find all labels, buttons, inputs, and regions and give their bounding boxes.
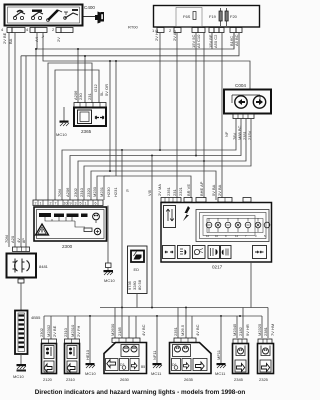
hazard switch connector row xyxy=(74,103,106,108)
svg-text:2310: 2310 xyxy=(79,187,84,197)
connector 3 below ignition switch xyxy=(52,27,73,33)
cluster icon box 6 xyxy=(253,246,267,259)
ground MC11 left xyxy=(151,316,162,376)
svg-text:H231: H231 xyxy=(113,187,118,197)
svg-text:●: ● xyxy=(194,252,196,256)
svg-text:M2345: M2345 xyxy=(232,323,237,336)
svg-text:HE10: HE10 xyxy=(85,349,90,360)
flasher unit 2300 connector row xyxy=(33,200,103,206)
svg-text:9: 9 xyxy=(70,202,72,206)
cluster lamp leads xyxy=(209,218,258,232)
ground MC11 right xyxy=(215,316,226,376)
key symbol xyxy=(84,12,105,24)
svg-text:A5 C10: A5 C10 xyxy=(196,34,201,48)
svg-text:S: S xyxy=(126,188,129,193)
BSI box icon unit xyxy=(127,246,147,294)
svg-text:M2310: M2310 xyxy=(70,324,75,337)
rear right lamp unit 2635 connector xyxy=(174,338,196,343)
svg-text:8P: 8P xyxy=(21,238,26,243)
svg-text:1: 1 xyxy=(85,202,87,206)
cluster inner frame 4 xyxy=(207,219,263,233)
svg-text:2: 2 xyxy=(50,202,52,206)
svg-text:MF11: MF11 xyxy=(216,349,221,360)
svg-text:BHE AP: BHE AP xyxy=(199,181,204,196)
svg-text:2351: 2351 xyxy=(166,186,171,196)
svg-text:2635: 2635 xyxy=(184,377,194,382)
svg-text:7: 7 xyxy=(55,202,57,206)
svg-text:2300: 2300 xyxy=(62,244,73,249)
svg-text:2320: 2320 xyxy=(86,187,91,197)
ignition switch contact 3 xyxy=(47,10,62,21)
fusebox connector 5 xyxy=(230,28,242,33)
2300 lamp circle xyxy=(93,213,100,223)
svg-text:/212: /212 xyxy=(93,83,98,92)
left wire bundle verticals xyxy=(9,33,26,248)
long mid buses xyxy=(62,119,251,201)
svg-text:2120: 2120 xyxy=(43,377,53,382)
svg-text:14: 14 xyxy=(235,234,239,238)
svg-text:RT00: RT00 xyxy=(128,25,138,30)
cluster icon box 4 xyxy=(208,246,220,259)
side repeater lamp unit connector xyxy=(13,247,30,252)
C004 connector row xyxy=(233,114,254,119)
svg-text:2V MA: 2V MA xyxy=(157,184,162,196)
svg-text:2302: 2302 xyxy=(73,187,78,197)
svg-text:MC10: MC10 xyxy=(85,371,96,376)
verticals from fusebox to cluster xyxy=(160,33,234,199)
wire bus D y70 xyxy=(55,70,99,200)
rear indicator 2325 connector xyxy=(258,339,272,344)
cluster inner frame 1 xyxy=(196,210,269,242)
svg-text:BR VE: BR VE xyxy=(186,184,191,196)
svg-text:2310: 2310 xyxy=(66,377,76,382)
svg-text:F6S: F6S xyxy=(183,14,191,19)
2300 resistor and sensor xyxy=(84,228,101,235)
svg-text:M2630: M2630 xyxy=(110,323,115,336)
2300 internal bar 3 xyxy=(67,214,79,218)
left indicator arrow xyxy=(235,96,247,108)
instrument cluster connector row xyxy=(161,198,251,203)
svg-text:231: 231 xyxy=(172,189,177,196)
rear left lamp unit 2630 xyxy=(104,343,147,374)
svg-text:MC10: MC10 xyxy=(104,278,115,283)
instrument cluster box xyxy=(161,203,272,263)
svg-text:2V HE: 2V HE xyxy=(154,29,159,41)
fusebox wire labels xyxy=(154,29,239,48)
cluster icon box 5 xyxy=(221,246,232,259)
svg-text:MC10: MC10 xyxy=(56,132,67,137)
svg-text:1: 1 xyxy=(40,202,42,206)
cluster lightning symbol xyxy=(183,206,190,221)
svg-text:2321: 2321 xyxy=(178,186,183,196)
flasher unit 2300 box xyxy=(34,207,107,241)
rear indicator 2345 connector xyxy=(233,339,247,344)
svg-text:H230: H230 xyxy=(106,187,111,197)
MC10 ground by hazard switch xyxy=(56,107,69,137)
svg-text:C400: C400 xyxy=(84,5,95,10)
svg-text:2V FH: 2V FH xyxy=(76,326,81,337)
hazard warning switch 2365 xyxy=(74,108,106,127)
svg-text:80 58: 80 58 xyxy=(137,279,142,290)
svg-text:M230: M230 xyxy=(92,186,97,197)
svg-text:4B55: 4B55 xyxy=(31,315,41,320)
svg-text:2302: 2302 xyxy=(39,327,44,337)
svg-text:MC11: MC11 xyxy=(215,371,226,376)
svg-text:MC10: MC10 xyxy=(13,374,24,379)
svg-text:2V BE: 2V BE xyxy=(2,32,7,44)
fusebox connector 4 xyxy=(209,28,224,33)
2300 internal bar 2 xyxy=(54,214,64,218)
fuse F19 xyxy=(209,8,222,26)
svg-text:7V HM: 7V HM xyxy=(270,324,275,336)
svg-text:B5: B5 xyxy=(141,365,145,369)
ignition switch contact 2 xyxy=(31,10,43,20)
wire from repeater to strip connector xyxy=(18,278,24,311)
fuse F6S xyxy=(183,12,196,20)
2300 warning triangle xyxy=(36,224,49,235)
svg-text:Direction indicators and hazar: Direction indicators and hazard warning … xyxy=(35,389,246,396)
cluster icon box 1 xyxy=(163,246,176,259)
right indicator arrow xyxy=(253,96,265,108)
svg-text:3: 3 xyxy=(75,202,77,206)
svg-text:M2302: M2302 xyxy=(46,324,51,337)
2300 feed wire labels xyxy=(57,181,222,197)
svg-text:2381: 2381 xyxy=(263,326,268,336)
lower buses xyxy=(44,307,268,318)
C004 wire labels xyxy=(224,125,252,140)
front left indicator 2120 connector xyxy=(42,339,57,344)
ignition switch C400 box xyxy=(5,5,83,26)
svg-text:A20: A20 xyxy=(10,235,15,243)
svg-text:9V HR: 9V HR xyxy=(245,324,250,336)
rear indicator 2325 xyxy=(258,344,274,374)
svg-text:A5 BC: A5 BC xyxy=(234,34,239,46)
wire bus A y49 xyxy=(37,33,234,50)
svg-text:2345: 2345 xyxy=(234,377,244,382)
svg-text:M2325: M2325 xyxy=(257,323,262,336)
cluster icon box 2 xyxy=(178,246,191,259)
wire label column left xyxy=(2,32,61,44)
connector strip 4B55 xyxy=(15,311,28,355)
connector 1 below ignition switch xyxy=(1,27,25,33)
wire bus B y56 xyxy=(21,33,239,56)
strip ground MC10 xyxy=(13,354,26,379)
svg-text:70M: 70M xyxy=(57,189,62,197)
svg-text:2351: 2351 xyxy=(173,326,178,336)
drop labels xyxy=(39,323,275,337)
fuse F20 xyxy=(225,8,238,26)
rear right lamp unit 2635 xyxy=(170,343,212,374)
svg-text:0217: 0217 xyxy=(212,265,223,270)
2300 extra feed stubs xyxy=(104,176,110,200)
BSI column wires xyxy=(122,150,152,308)
ignition switch contact 1 xyxy=(13,11,25,20)
cluster inner frame 3 xyxy=(203,216,255,236)
fusebox connector 2 xyxy=(169,28,181,34)
ignition switch contact 4 xyxy=(64,10,78,19)
svg-text:2V A5: 2V A5 xyxy=(172,30,177,41)
connector 2 below ignition switch xyxy=(26,27,47,33)
svg-text:2V BA: 2V BA xyxy=(217,184,222,196)
cluster gauge box xyxy=(164,206,176,228)
svg-text:2365: 2365 xyxy=(81,129,92,134)
2300 internal links xyxy=(45,217,85,227)
svg-text:230: 230 xyxy=(78,93,83,100)
svg-text:M26.5: M26.5 xyxy=(180,324,185,336)
svg-text:VI5: VI5 xyxy=(147,189,152,196)
svg-text:5V BA: 5V BA xyxy=(211,184,216,196)
wire bus E y61 xyxy=(43,33,250,90)
svg-text:12: 12 xyxy=(206,234,210,238)
svg-text:5V OR: 5V OR xyxy=(104,84,109,96)
svg-text:2185: 2185 xyxy=(117,326,122,336)
svg-text:C004: C004 xyxy=(235,83,246,88)
side repeater lamp unit xyxy=(7,254,37,278)
svg-text:MC11: MC11 xyxy=(151,371,162,376)
svg-text:6: 6 xyxy=(95,202,97,206)
svg-text:10: 10 xyxy=(64,202,68,206)
rear left lamp unit 2630 connector xyxy=(112,338,140,343)
front right indicator 2310 connector xyxy=(65,339,80,344)
2300 internal bar 4 xyxy=(81,214,88,218)
hazard wire labels xyxy=(73,83,109,100)
svg-text:4V BC: 4V BC xyxy=(141,324,146,336)
cluster down wire xyxy=(250,262,252,308)
svg-text:2V BE: 2V BE xyxy=(52,325,57,337)
svg-text:NF: NF xyxy=(224,131,229,137)
fusebox connector 1 xyxy=(152,28,164,34)
2300 internal bar 1 xyxy=(39,213,51,217)
cluster lamp tiny numbers xyxy=(206,234,266,238)
front left indicator 2120 xyxy=(42,344,57,374)
wire bus C y63 xyxy=(48,63,92,200)
svg-text:2630: 2630 xyxy=(120,377,130,382)
svg-text:F19: F19 xyxy=(209,14,217,19)
direction indicator switch C004 xyxy=(224,90,271,114)
feed to 2300 pin1 xyxy=(35,49,37,200)
svg-text:5: 5 xyxy=(80,202,82,206)
2300 ground wire MC10 xyxy=(104,206,116,284)
svg-text:M231: M231 xyxy=(99,186,104,197)
cluster icon box 3 xyxy=(193,246,206,259)
hazard feed stubs xyxy=(35,48,86,103)
pass-down wires right of hazard switch xyxy=(109,60,117,176)
svg-text:2V: 2V xyxy=(56,37,61,42)
svg-text:ED: ED xyxy=(134,267,140,272)
cluster lamp row xyxy=(206,222,270,228)
svg-text:F20: F20 xyxy=(230,14,238,19)
svg-text:A50 C2: A50 C2 xyxy=(213,34,218,48)
front right indicator 2310 xyxy=(65,344,80,374)
svg-text:2325: 2325 xyxy=(259,377,269,382)
fusebox box top right xyxy=(154,6,260,28)
svg-text:70M: 70M xyxy=(4,235,9,243)
svg-text:10: 10 xyxy=(215,234,219,238)
svg-text:A206: A206 xyxy=(65,187,70,197)
mid bus junction dots xyxy=(109,149,205,172)
svg-text:2: 2 xyxy=(35,202,37,206)
svg-text:8481: 8481 xyxy=(39,264,49,269)
svg-text:A4: A4 xyxy=(34,36,39,42)
svg-text:231: 231 xyxy=(87,93,92,100)
svg-text:2310: 2310 xyxy=(63,327,68,337)
svg-text:4V BC: 4V BC xyxy=(195,324,200,336)
ground MC10 between xyxy=(85,316,96,376)
fusebox connector 3 xyxy=(192,28,205,33)
drops to bottom units xyxy=(44,308,268,340)
BSI bottom wire xyxy=(136,294,138,308)
rear indicator 2345 xyxy=(233,344,249,374)
left wire labels mid xyxy=(4,235,26,243)
cluster inner frame 2 xyxy=(200,213,267,239)
svg-text:2182: 2182 xyxy=(238,326,243,336)
svg-text:NF11: NF11 xyxy=(152,350,157,360)
